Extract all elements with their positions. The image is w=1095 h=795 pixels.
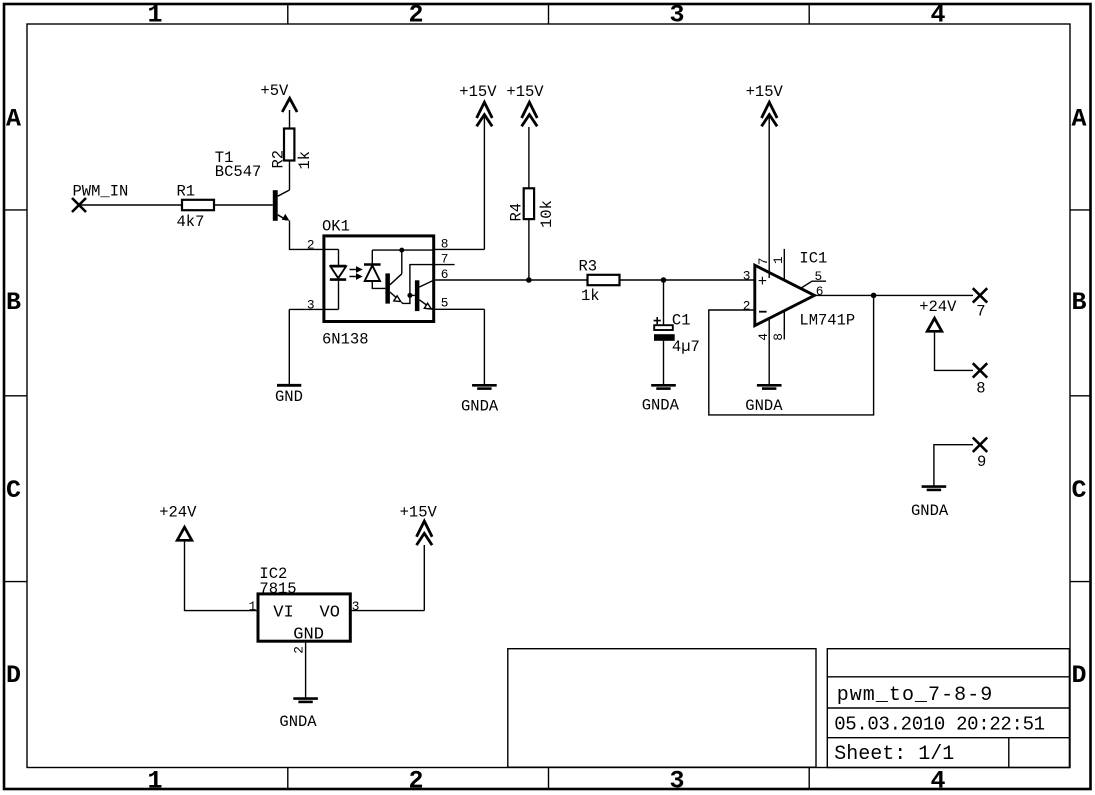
svg-text:4: 4 [930, 1, 945, 30]
svg-text:BC547: BC547 [215, 163, 262, 181]
svg-text:1k: 1k [581, 287, 600, 305]
svg-text:+24V: +24V [919, 298, 957, 316]
svg-text:VO: VO [320, 604, 340, 623]
svg-text:+15V: +15V [506, 83, 544, 101]
svg-text:1: 1 [147, 767, 162, 795]
node 7 (output pin) [973, 288, 987, 321]
svg-text:+15V: +15V [400, 504, 438, 522]
supply +24V (left) [159, 504, 197, 541]
svg-text:+5V: +5V [260, 82, 289, 100]
svg-text:5: 5 [441, 296, 449, 311]
svg-text:7: 7 [756, 258, 771, 266]
TITLEBLOCK [508, 649, 1070, 768]
resistor R3 [579, 257, 620, 305]
OK1 light arrows [350, 267, 362, 279]
junction C1/R3 [661, 277, 667, 283]
svg-text:GNDA: GNDA [461, 398, 499, 416]
wire IC2 pin3 to +15V [350, 545, 424, 611]
wire R2 to +5V [289, 110, 291, 129]
svg-text:8: 8 [771, 333, 786, 341]
ground GNDA (below IC2) [279, 699, 318, 731]
svg-text:9: 9 [977, 453, 986, 471]
svg-text:C: C [1071, 476, 1086, 505]
svg-text:D: D [6, 661, 21, 690]
svg-text:A: A [6, 105, 21, 134]
svg-text:pwm_to_7-8-9: pwm_to_7-8-9 [837, 684, 994, 707]
svg-text:3: 3 [743, 269, 751, 284]
svg-text:3: 3 [352, 599, 360, 614]
junction inside OK1 base [407, 293, 412, 298]
wire node 9 to GNDA [934, 445, 973, 486]
resistor R4 [508, 127, 557, 280]
svg-text:GND: GND [275, 388, 303, 406]
svg-text:2: 2 [743, 299, 751, 314]
resistor R1 [177, 183, 215, 232]
IC1 pin 5 stub [801, 269, 826, 289]
wire T1 emitter to OK1 pin 2 [290, 221, 324, 250]
wire +24V to node 8 [935, 331, 974, 370]
svg-text:GNDA: GNDA [745, 397, 783, 415]
svg-text:B: B [1071, 288, 1086, 317]
svg-text:R3: R3 [579, 257, 598, 275]
svg-text:2: 2 [408, 1, 423, 30]
ground GNDA (below C1) [642, 385, 680, 414]
OK1 internal transistor Q2 [410, 280, 434, 311]
optocoupler OK1 6N138 [322, 218, 434, 349]
svg-text:1: 1 [771, 256, 786, 264]
ground GND [275, 385, 303, 406]
svg-text:GNDA: GNDA [642, 397, 680, 415]
svg-text:1: 1 [249, 599, 257, 614]
junction R4/pin6 [526, 277, 532, 283]
svg-text:A: A [1071, 105, 1086, 134]
OK1 internal photodiode [364, 250, 385, 288]
wire OK1 pin3 to GND [289, 309, 324, 384]
IC1 pin 4 wire to GNDA [756, 318, 771, 384]
svg-text:GNDA: GNDA [911, 502, 949, 520]
wire IC2 pin2 to GNDA [305, 641, 307, 697]
svg-text:7815: 7815 [259, 580, 296, 598]
OK1 internal LED [324, 249, 346, 309]
svg-text:6: 6 [816, 284, 824, 299]
svg-text:2: 2 [292, 646, 307, 654]
svg-text:R4: R4 [508, 203, 526, 222]
wire feedback loop [709, 295, 874, 415]
svg-text:6N138: 6N138 [322, 330, 369, 348]
ground GNDA (below IC1) [745, 385, 783, 415]
svg-text:+15V: +15V [746, 83, 784, 101]
OK1 internal transistor Q1 [385, 250, 410, 304]
svg-text:+: + [758, 273, 767, 291]
svg-text:1: 1 [147, 1, 162, 30]
supply +15V (above pin8) [459, 83, 497, 126]
node 8 [973, 363, 987, 397]
svg-text:+15V: +15V [459, 83, 497, 101]
wire OK1 pin8 to +15V [434, 115, 485, 249]
svg-text:8: 8 [976, 380, 985, 398]
svg-text:C: C [6, 476, 21, 505]
OK1 pin7 stub [434, 264, 455, 266]
svg-text:10k: 10k [538, 200, 556, 228]
wire IC1 output [815, 294, 974, 296]
wire R3 to IC1 pin3 [620, 279, 755, 281]
svg-text:4µ7: 4µ7 [672, 338, 700, 356]
svg-text:3: 3 [307, 298, 315, 313]
junction inside OK1 top [399, 248, 404, 253]
supply +5V [260, 82, 297, 112]
svg-text:OK1: OK1 [322, 218, 350, 236]
IC1 pin 7 wire to +15V [756, 116, 771, 278]
wire PWM_IN to R1 [79, 204, 182, 206]
svg-text:4k7: 4k7 [177, 213, 205, 231]
wire T1 collector to R2 [289, 161, 291, 191]
supply +15V (above IC1) [746, 83, 784, 126]
node 9 [973, 438, 987, 472]
node PWM_IN [72, 182, 128, 212]
resistor R2 [270, 129, 315, 170]
svg-text:3: 3 [669, 1, 684, 30]
transistor T1 [215, 149, 290, 221]
supply +15V (above R4) [506, 83, 544, 126]
svg-text:B: B [6, 288, 21, 317]
svg-text:Sheet: 1/1: Sheet: 1/1 [834, 743, 954, 766]
svg-text:LM741P: LM741P [799, 311, 855, 329]
ground GNDA (below pin5) [461, 385, 499, 415]
IC1 pin 1 stub [771, 249, 786, 280]
svg-text:R1: R1 [177, 183, 196, 201]
svg-text:05.03.2010 20:22:51: 05.03.2010 20:22:51 [834, 714, 1045, 736]
svg-text:R2: R2 [270, 150, 288, 169]
svg-text:2: 2 [408, 767, 423, 795]
wire OK1 pin5 to GNDA [434, 309, 485, 384]
OK1 internal top wire to pin 8 [372, 249, 433, 251]
svg-text:3: 3 [669, 767, 684, 795]
wire +24V to IC2 pin1 [185, 540, 259, 610]
regulator IC2 7815 [258, 565, 350, 644]
svg-text:GNDA: GNDA [279, 713, 317, 731]
wire R1 to T1 base [214, 204, 273, 206]
svg-text:VI: VI [273, 604, 293, 623]
svg-text:5: 5 [815, 269, 823, 284]
svg-text:D: D [1071, 661, 1086, 690]
svg-text:IC1: IC1 [799, 250, 827, 268]
junction output [871, 293, 877, 299]
svg-text:2: 2 [307, 238, 315, 253]
svg-text:PWM_IN: PWM_IN [73, 182, 129, 200]
svg-text:7: 7 [976, 303, 985, 321]
supply +15V (above IC2) [400, 504, 438, 546]
op-amp IC1 LM741P [755, 250, 855, 330]
ground GNDA (below node 9) [911, 487, 949, 520]
capacitor C1 [654, 280, 700, 384]
svg-text:C1: C1 [672, 312, 691, 330]
supply +24V (right) [919, 298, 957, 332]
svg-text:+24V: +24V [159, 504, 197, 522]
svg-text:4: 4 [930, 767, 945, 795]
svg-text:GND: GND [293, 625, 324, 644]
wire OK1 pin6 to R3 [434, 279, 588, 281]
svg-text:1k: 1k [296, 151, 314, 170]
IC1 pin 8 stub [771, 311, 786, 341]
svg-text:4: 4 [756, 333, 771, 341]
OK1 internal pin7 wire [410, 265, 434, 296]
